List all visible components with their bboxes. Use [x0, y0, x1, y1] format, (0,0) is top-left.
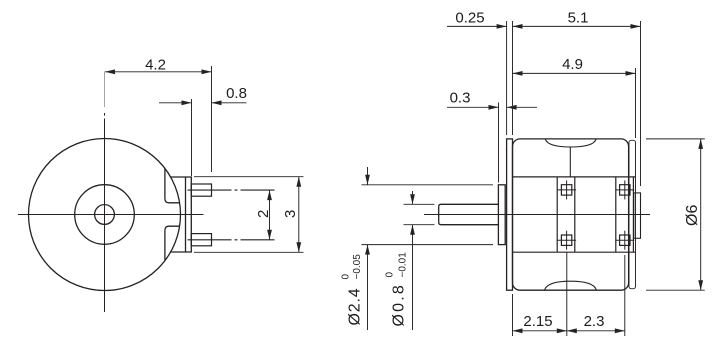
front view: top terminal pin	[191, 184, 211, 196]
dimension 3: terminal block height	[194, 176, 304, 178]
front view: shaft circle O0.8	[95, 205, 115, 225]
front view: horizontal centerline	[18, 214, 204, 216]
dimension 0.25: front plate thickness	[506, 21, 508, 135]
dimension 4.2: motor center to pin tip	[211, 66, 213, 172]
front view: terminal block top tab	[165, 168, 180, 202]
svg-text:0: 0	[385, 272, 396, 278]
side view: right terminal strip	[615, 177, 617, 252]
side view: terminal pin square 3	[620, 185, 630, 195]
front view: terminal block bottom tab	[165, 226, 180, 260]
dimension 2: pin pitch	[269, 190, 271, 240]
svg-text:2: 2	[255, 210, 272, 218]
side view: coil band top line	[513, 176, 636, 178]
front view: bottom terminal pin	[191, 234, 211, 246]
side view: terminal pin square 1	[561, 185, 571, 195]
svg-text:−0.01: −0.01	[398, 252, 409, 278]
side view: front mounting plate 0.25 thick	[507, 139, 513, 290]
dimension 2.3: pin row pitch	[624, 255, 626, 336]
svg-text:2.15: 2.15	[523, 313, 552, 330]
side view: rear bearing boss	[634, 193, 641, 238]
svg-text:Ø0.8: Ø0.8	[391, 283, 408, 327]
dimension 5.1: body length incl boss	[640, 21, 642, 186]
side view: top seam line	[569, 148, 571, 177]
dimension 2.15: can front to first pin row	[512, 294, 514, 336]
side view: left terminal strip	[556, 177, 558, 252]
side view: terminal pin square 4	[620, 235, 630, 245]
dimension 4.9: can length	[635, 68, 637, 138]
svg-text:3: 3	[282, 210, 299, 218]
side view: top can seam arc	[545, 139, 596, 147]
svg-text:Ø2.4: Ø2.4	[347, 288, 364, 326]
svg-text:0.8: 0.8	[226, 85, 247, 102]
front view: top pin dash-dot centerline	[188, 189, 275, 191]
svg-text:0.25: 0.25	[455, 9, 484, 26]
front view: bushing circle O2.4	[75, 185, 135, 245]
side view: bushing O2.4	[498, 185, 505, 245]
front view: bottom pin dash-dot centerline	[188, 239, 275, 241]
front view: vertical centerline	[104, 72, 106, 108]
front view: terminal block plate	[171, 177, 192, 252]
side view: horizontal axis centerline	[424, 214, 650, 216]
dimension O2.4 bushing diameter	[362, 184, 494, 186]
dimension 0.8: pin length	[191, 99, 193, 176]
svg-text:4.9: 4.9	[562, 56, 583, 73]
svg-text:−0.05: −0.05	[352, 254, 363, 280]
side view: motor can body	[513, 139, 629, 290]
side view: terminal pin square 2	[561, 235, 571, 245]
svg-text:0.3: 0.3	[450, 89, 471, 106]
side view: coil band bottom line	[513, 251, 636, 253]
svg-text:Ø6: Ø6	[684, 205, 701, 226]
dimension O6: can diameter	[646, 138, 705, 140]
side view: shaft O0.8	[439, 204, 499, 224]
svg-text:5.1: 5.1	[568, 9, 589, 26]
svg-text:2.3: 2.3	[584, 313, 605, 330]
dimension O0.8 shaft diameter	[404, 203, 435, 205]
dimension 0.3: bushing protrusion	[498, 103, 500, 183]
svg-text:4.2: 4.2	[145, 56, 166, 73]
side view: rear end cap	[629, 140, 636, 288]
svg-text:0: 0	[341, 274, 352, 280]
front view: big circle (motor can O6)	[29, 139, 181, 291]
side view: bottom can seam arc	[545, 281, 597, 290]
